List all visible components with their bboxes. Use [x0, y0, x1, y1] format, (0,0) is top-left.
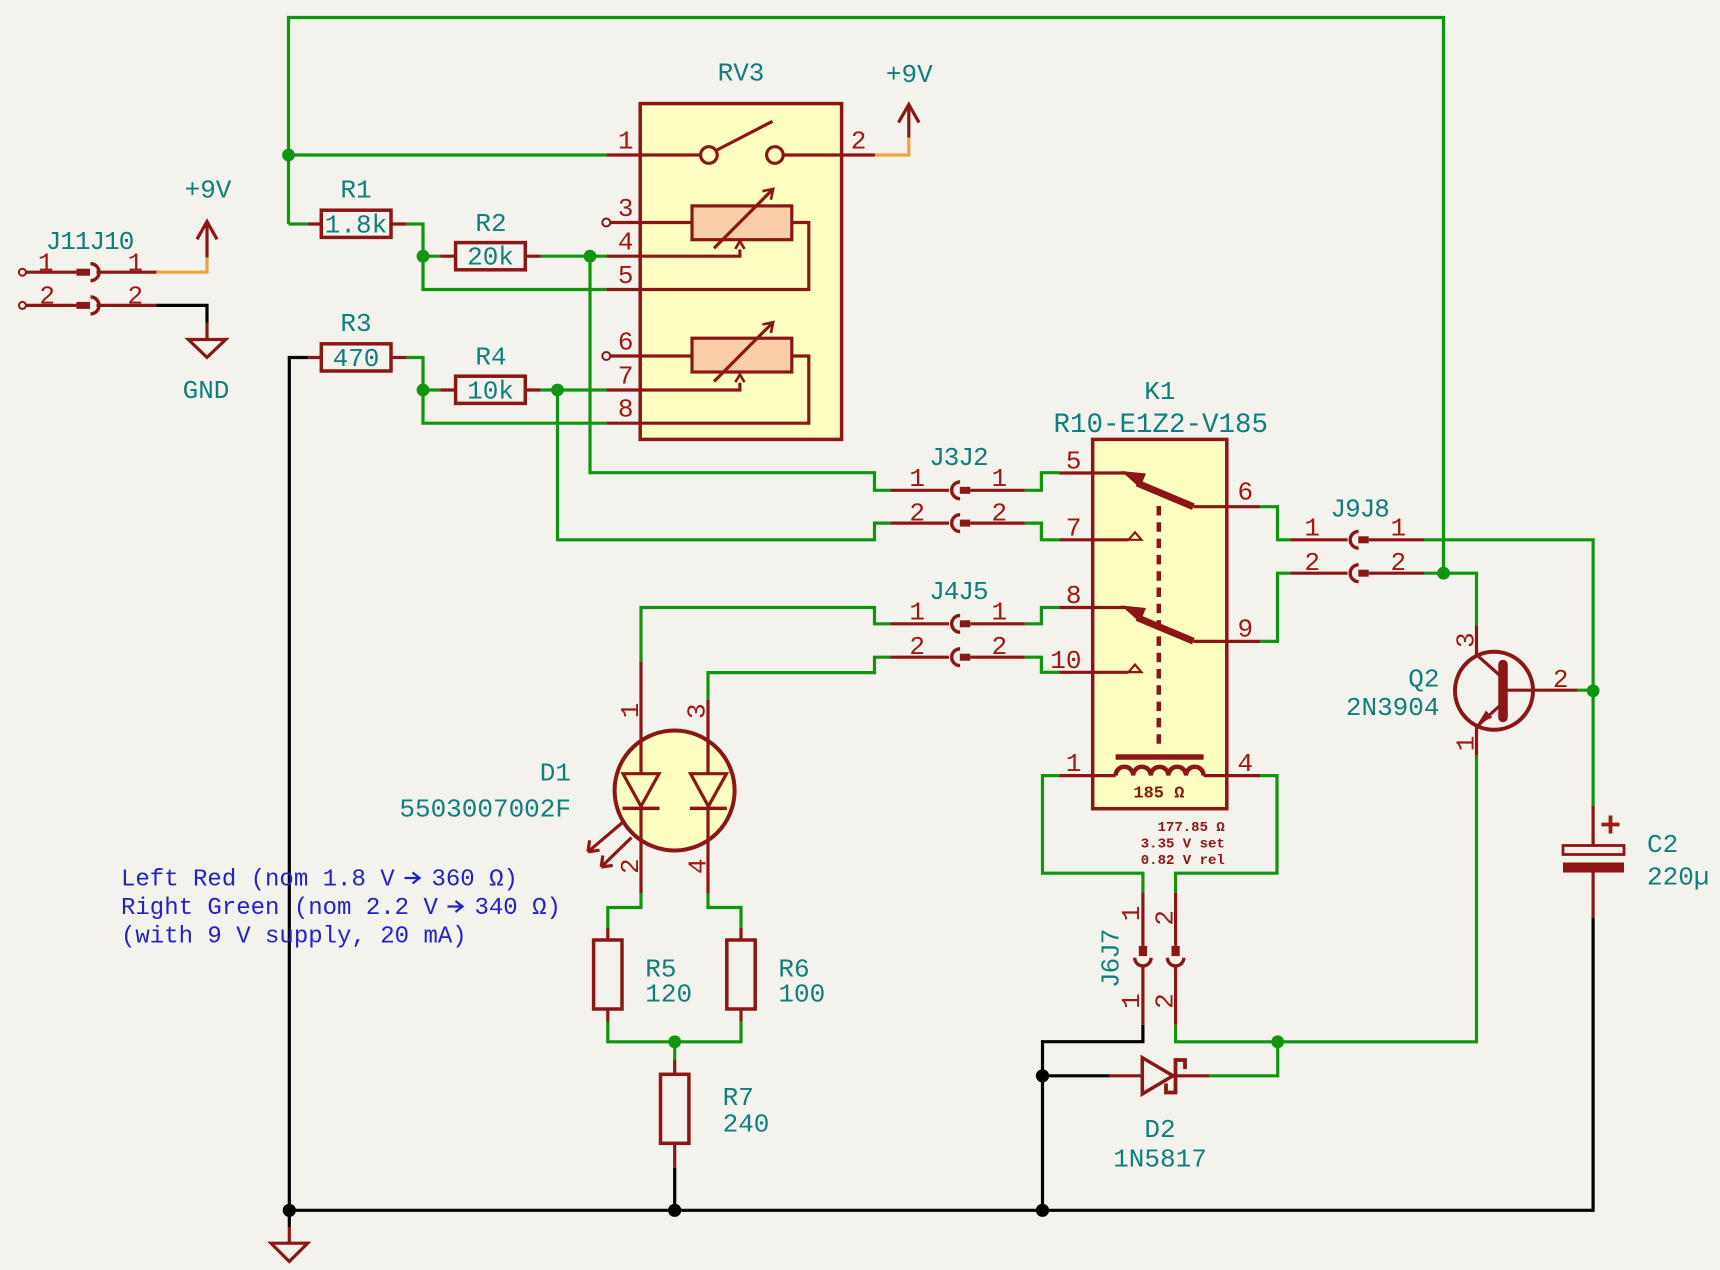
svg-text:2: 2	[1553, 665, 1569, 695]
svg-text:177.85 Ω: 177.85 Ω	[1158, 820, 1226, 836]
svg-text:10k: 10k	[467, 376, 514, 406]
svg-text:1: 1	[992, 598, 1008, 628]
RV3 potentiometer 2	[640, 322, 809, 423]
resistor R5	[594, 928, 622, 1022]
relay K1 body	[1093, 439, 1227, 808]
wire relay coil pin 4 to J7	[1176, 776, 1277, 893]
svg-text:10: 10	[1050, 646, 1081, 676]
junction R1-R2 node	[417, 250, 430, 263]
wire node to R7 top	[673, 1042, 676, 1060]
wire R1 to R2	[407, 224, 423, 256]
wire J5 pin 1 to relay pin 8	[1025, 608, 1059, 624]
junction top rail / J8 pin 2	[1437, 567, 1450, 580]
connector pair J9 J8 row 1	[1291, 531, 1425, 548]
wire J8 pin 1 to C2 top	[1424, 540, 1593, 806]
junction R4 out node	[551, 384, 564, 397]
transistor Q2	[1455, 626, 1577, 756]
svg-text:GND: GND	[183, 376, 230, 406]
svg-text:2: 2	[992, 499, 1008, 529]
svg-text:+9V: +9V	[886, 60, 933, 90]
wire relay coil pin 1 to J6	[1043, 776, 1143, 893]
svg-text:1: 1	[128, 248, 144, 278]
svg-text:240: 240	[723, 1110, 770, 1140]
svg-text:2: 2	[1391, 548, 1407, 578]
junction rail left (black)	[283, 1204, 296, 1217]
svg-text:470: 470	[333, 344, 380, 374]
svg-text:1: 1	[1391, 514, 1407, 544]
wire J10 pin 2 to GND (black)	[157, 305, 208, 322]
power +9V symbol (RV3 pin 2)	[899, 105, 920, 138]
RV3 pin 6 unconnected circle	[602, 352, 610, 360]
wire R2 out to RV3 pin 4	[541, 255, 607, 258]
junction R5/R6/R7 node	[668, 1035, 681, 1048]
wire to RV3 pin 1	[289, 153, 607, 156]
wire GND rail (black)	[289, 358, 1593, 1211]
RV3 pin stubs	[607, 155, 875, 423]
svg-text:2: 2	[1150, 993, 1180, 1009]
wire R1 left	[289, 222, 309, 225]
relay switch A (pins 5-6)	[1093, 471, 1227, 507]
LED D1	[615, 662, 735, 893]
svg-text:360 Ω): 360 Ω)	[432, 867, 518, 894]
svg-text:1: 1	[1066, 749, 1082, 779]
svg-text:3: 3	[618, 194, 634, 224]
resistor R4	[440, 376, 540, 403]
wire J6 pin 1 to D2 anode and rail (black)	[1043, 1025, 1143, 1211]
wire to RV3 pin 8	[423, 390, 607, 423]
wire to RV3 pin 5	[423, 256, 607, 289]
wire pot1 wiper net to J3 pin 1	[590, 256, 891, 490]
wire GND stub below rail (black)	[288, 1210, 291, 1227]
connector J11 pin 1 circle	[19, 269, 26, 276]
svg-text:D2: D2	[1144, 1115, 1175, 1145]
resistor R3	[308, 344, 407, 371]
svg-text:2: 2	[39, 282, 55, 312]
wire relay pin 9 to J9 pin 2	[1260, 573, 1290, 641]
svg-text:J9J8: J9J8	[1330, 495, 1388, 525]
svg-text:1: 1	[1304, 514, 1320, 544]
resistor R6	[727, 928, 755, 1022]
svg-text:4: 4	[684, 858, 714, 874]
svg-text:+9V: +9V	[185, 175, 232, 205]
capacitor C2	[1563, 806, 1624, 918]
svg-text:1: 1	[909, 464, 925, 494]
connector pair J4 J5 row 1	[891, 615, 1025, 632]
svg-text:3.35 V set: 3.35 V set	[1141, 837, 1225, 853]
svg-text:185 Ω: 185 Ω	[1133, 785, 1184, 804]
wire R2 left stub	[423, 255, 440, 258]
wire D2 cathode branch	[1209, 1042, 1277, 1076]
svg-text:J11J10: J11J10	[46, 227, 134, 257]
svg-text:8: 8	[1066, 581, 1082, 611]
svg-text:4: 4	[618, 228, 634, 258]
wire Q2 emitter down to D2 net	[1176, 756, 1477, 1042]
wire D1 pin 2 to R5	[608, 893, 641, 928]
ground symbol (J10)	[188, 323, 225, 358]
junction Q2 base / C2	[1587, 684, 1600, 697]
wire J8 pin 2 to Q2 collector	[1424, 573, 1477, 626]
connector pair J11 J10 row 2	[26, 297, 157, 314]
svg-text:340 Ω): 340 Ω)	[475, 895, 561, 922]
svg-text:2: 2	[909, 632, 925, 662]
connector pair J3 J2 row 1	[891, 482, 1025, 499]
connector pair J6 J7 column 2	[1167, 893, 1183, 1025]
svg-text:D1: D1	[540, 759, 571, 789]
svg-text:1: 1	[38, 248, 54, 278]
potentiometer block RV3 body	[640, 104, 841, 440]
svg-text:2: 2	[128, 282, 144, 312]
relay NO contact pin 7	[1093, 532, 1142, 540]
wire R7 bottom to rail (black)	[673, 1168, 676, 1211]
resistor R7	[661, 1060, 689, 1168]
connector pair J4 J5 row 2	[891, 649, 1025, 666]
note blue arrow 1	[405, 873, 420, 884]
wire pot2 wiper net to J3 pin 2	[558, 390, 891, 540]
wire R4 out to RV3 pin 7	[541, 388, 607, 391]
svg-text:J3J2: J3J2	[929, 443, 987, 473]
relay coil (pins 1-4)	[1093, 757, 1227, 776]
note blue arrow 2	[448, 901, 463, 912]
svg-text:3: 3	[683, 703, 713, 719]
svg-text:Q2: Q2	[1408, 665, 1439, 695]
wire RV3 pin 2 to +9V (orange)	[875, 138, 909, 156]
svg-text:2N3904: 2N3904	[1346, 693, 1440, 723]
svg-text:3: 3	[1452, 632, 1482, 648]
diode D2	[1110, 1058, 1210, 1094]
svg-text:C2: C2	[1647, 830, 1678, 860]
svg-text:1: 1	[992, 464, 1008, 494]
svg-text:1N5817: 1N5817	[1113, 1145, 1207, 1175]
ground symbol (bottom rail)	[271, 1227, 308, 1262]
svg-text:Right Green (nom 2.2 V: Right Green (nom 2.2 V	[121, 895, 438, 922]
relay switch B (pins 8-9)	[1093, 606, 1227, 642]
wire J5 pin 2 to relay pin 10	[1025, 657, 1059, 672]
wire R3 to R4	[407, 358, 423, 391]
relay actuator dashed line	[1157, 506, 1162, 750]
junction D2 anode node (black)	[1036, 1069, 1049, 1082]
svg-text:2: 2	[851, 127, 867, 157]
wire +9V top rail	[289, 18, 1444, 574]
svg-text:R10-E1Z2-V185: R10-E1Z2-V185	[1054, 410, 1269, 441]
wire R4 left stub	[423, 388, 440, 391]
wire Q2 base to C2 node	[1577, 689, 1593, 692]
svg-text:1: 1	[1117, 906, 1147, 922]
svg-text:J6J7: J6J7	[1097, 930, 1127, 988]
svg-text:7: 7	[1066, 513, 1082, 543]
wire D2 anode stub (black)	[1043, 1074, 1110, 1077]
svg-text:5503007002F: 5503007002F	[399, 795, 571, 825]
svg-text:1: 1	[1117, 993, 1147, 1009]
svg-text:120: 120	[645, 980, 692, 1010]
svg-text:220µ: 220µ	[1647, 863, 1709, 893]
svg-text:6: 6	[1238, 477, 1254, 507]
connector pair J11 J10 row 1	[26, 264, 157, 281]
junction +9V rail / RV3 pin1	[282, 149, 295, 162]
wire relay pin 6 to J9 pin 1	[1260, 507, 1290, 540]
svg-text:5: 5	[1066, 447, 1082, 477]
svg-text:K1: K1	[1144, 377, 1175, 407]
svg-text:2: 2	[616, 858, 646, 874]
svg-text:2: 2	[1304, 548, 1320, 578]
relay pin stubs	[1059, 473, 1260, 776]
svg-text:1: 1	[1452, 736, 1482, 752]
svg-text:2: 2	[992, 632, 1008, 662]
svg-text:1.8k: 1.8k	[325, 211, 387, 241]
svg-text:8: 8	[618, 395, 634, 425]
wire D1 pin 1 to J4 pin 1	[641, 608, 891, 663]
svg-text:4: 4	[1238, 749, 1254, 779]
connector pair J9 J8 row 2	[1291, 565, 1425, 582]
svg-text:2: 2	[1150, 910, 1180, 926]
connector J11 pin 2 circle	[19, 302, 26, 309]
wire J2 pin 1 to relay pin 5	[1025, 473, 1059, 491]
svg-text:9: 9	[1238, 614, 1254, 644]
junction rail R7 (black)	[668, 1204, 681, 1217]
RV3 potentiometer 1	[640, 189, 809, 290]
svg-text:1: 1	[616, 703, 646, 719]
wire D1 pin 4 to R6	[708, 893, 741, 928]
svg-text:7: 7	[618, 362, 634, 392]
wire R5/R6 bottoms joined	[608, 1022, 741, 1042]
svg-text:2: 2	[909, 499, 925, 529]
svg-text:Left Red (nom 1.8 V: Left Red (nom 1.8 V	[121, 867, 395, 894]
svg-text:20k: 20k	[467, 243, 514, 273]
svg-text:1: 1	[909, 598, 925, 628]
svg-text:R4: R4	[475, 343, 506, 373]
svg-text:RV3: RV3	[718, 59, 765, 89]
svg-text:0.82 V rel: 0.82 V rel	[1141, 853, 1225, 869]
svg-text:(with 9 V supply, 20 mA): (with 9 V supply, 20 mA)	[121, 924, 467, 951]
wire D1 pin 3 to J4 pin 2	[708, 657, 891, 700]
RV3 switch (pins 1-2)	[640, 121, 841, 163]
RV3 pin 3 unconnected circle	[602, 219, 610, 227]
connector pair J3 J2 row 2	[891, 515, 1025, 532]
wire J2 pin 2 to relay pin 7	[1025, 523, 1059, 540]
svg-text:100: 100	[778, 980, 825, 1010]
junction R3-R4 node	[417, 384, 430, 397]
D1 light emission arrows	[588, 823, 632, 868]
svg-text:R3: R3	[340, 309, 371, 339]
svg-text:1: 1	[618, 127, 634, 157]
svg-text:5: 5	[618, 261, 634, 291]
svg-text:J4J5: J4J5	[929, 577, 987, 607]
connector pair J6 J7 column 1	[1135, 893, 1151, 1025]
junction rail J6 (black)	[1036, 1204, 1049, 1217]
svg-text:6: 6	[618, 328, 634, 358]
junction D2 cathode node	[1271, 1035, 1284, 1048]
relay NO contact pin 10	[1093, 665, 1142, 673]
svg-text:R2: R2	[475, 209, 506, 239]
power +9V symbol (J10)	[197, 222, 217, 258]
resistor R2	[440, 243, 540, 270]
resistor R1	[308, 210, 407, 237]
svg-text:R1: R1	[340, 175, 371, 205]
svg-text:R7: R7	[723, 1083, 754, 1113]
junction R2 out node	[584, 250, 597, 263]
wire J10 pin 1 to +9V (orange)	[157, 258, 208, 273]
